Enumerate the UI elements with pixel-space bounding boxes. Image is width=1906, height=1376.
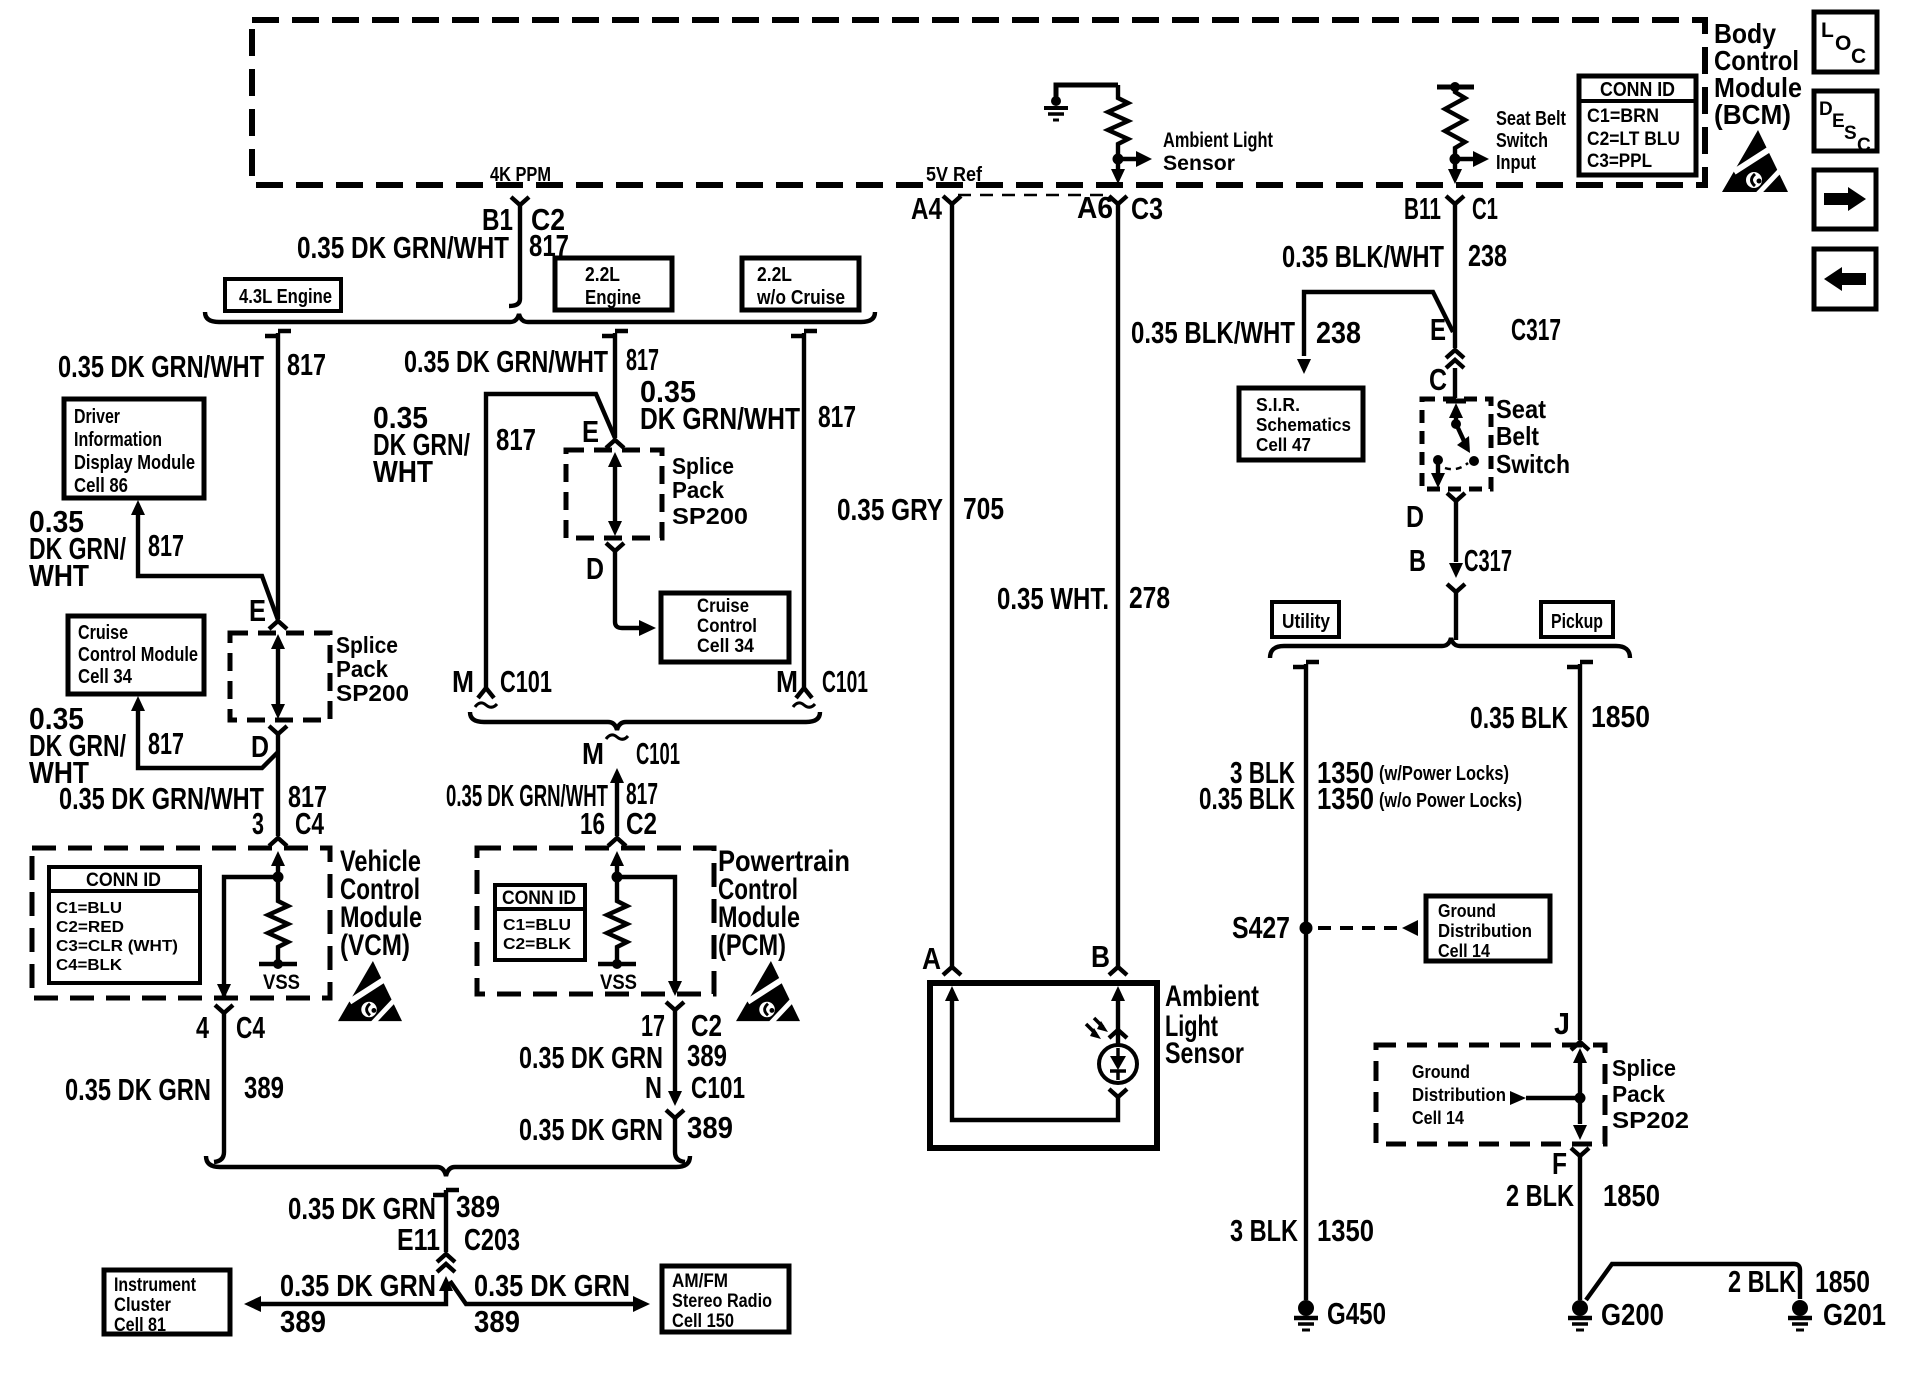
svg-text:D: D: [1819, 99, 1833, 120]
wire 278: [1116, 204, 1120, 967]
svg-text:Splice: Splice: [1612, 1055, 1676, 1081]
svg-text:389: 389: [456, 1189, 500, 1224]
ground (inside BCM, ambient light sensor pull-up): [1044, 85, 1118, 120]
svg-text:Cell 150: Cell 150: [672, 1311, 734, 1332]
svg-text:16: 16: [580, 806, 605, 841]
connector 4 C4: [215, 1005, 233, 1013]
ground G200: [1568, 1300, 1592, 1330]
svg-text:Sensor: Sensor: [1165, 1037, 1244, 1070]
brace (engine variants): [205, 312, 875, 322]
connector B11 C1: [1446, 196, 1464, 204]
svg-text:Distribution: Distribution: [1412, 1085, 1506, 1105]
seat belt switch dashed box: [1422, 399, 1491, 489]
svg-text:C101: C101: [691, 1070, 745, 1105]
svg-text:L: L: [1821, 19, 1834, 42]
svg-text:O: O: [1835, 32, 1851, 55]
wire D down to VCM: [276, 734, 280, 836]
svg-text:Pickup: Pickup: [1551, 611, 1603, 633]
left arrow nav box: [1814, 249, 1876, 309]
svg-text:0.35 DK GRN/WHT: 0.35 DK GRN/WHT: [404, 344, 608, 379]
svg-text:C2=RED: C2=RED: [56, 919, 124, 936]
svg-text:2 BLK: 2 BLK: [1506, 1178, 1574, 1213]
junction + arrow to label: [1113, 154, 1124, 165]
svg-text:B: B: [1091, 939, 1110, 974]
svg-text:C4: C4: [295, 806, 325, 841]
svg-text:Distribution: Distribution: [1438, 921, 1532, 941]
connector under brace (4.3L leg): [265, 331, 291, 336]
svg-text:C: C: [1429, 362, 1447, 397]
svg-text:A6: A6: [1077, 190, 1113, 225]
svg-text:C3=CLR (WHT): C3=CLR (WHT): [56, 938, 178, 955]
svg-text:1850: 1850: [1591, 699, 1650, 734]
svg-text:(PCM): (PCM): [718, 929, 786, 962]
svg-text:M: M: [452, 664, 474, 699]
svg-text:C317: C317: [1464, 543, 1512, 578]
wire 389 down to merge brace: [675, 1118, 685, 1162]
svg-text:3: 3: [252, 806, 264, 841]
label Vehicle Control Module (VCM): [340, 845, 422, 962]
svg-text:Cell 34: Cell 34: [697, 636, 754, 657]
svg-text:N: N: [645, 1070, 662, 1105]
svg-text:817: 817: [496, 422, 536, 457]
svg-text:0.35 BLK/WHT: 0.35 BLK/WHT: [1282, 239, 1444, 274]
svg-text:0.35 DK GRN/WHT: 0.35 DK GRN/WHT: [297, 230, 509, 265]
svg-text:Seat: Seat: [1496, 394, 1546, 424]
light arrows: [1086, 1018, 1103, 1034]
svg-text:D: D: [251, 729, 269, 764]
wire 817 down to E: [276, 333, 280, 619]
svg-text:(VCM): (VCM): [340, 929, 410, 962]
resistor VSS (VCM): [268, 877, 288, 962]
junction: [273, 872, 284, 883]
svg-text:389: 389: [474, 1304, 520, 1339]
svg-text:C: C: [1857, 135, 1871, 156]
svg-text:M: M: [582, 736, 604, 771]
svg-text:Seat Belt: Seat Belt: [1496, 108, 1566, 130]
svg-text:Cell 34: Cell 34: [78, 666, 133, 688]
right branch wire (2.2L w/o Cruise): [791, 331, 817, 336]
svg-text:4: 4: [196, 1010, 210, 1045]
svg-text:Ambient: Ambient: [1165, 980, 1259, 1013]
svg-text:Switch: Switch: [1496, 130, 1548, 152]
wire up-arrow to 16 C2: [610, 768, 624, 783]
svg-text:Control: Control: [697, 616, 757, 637]
photodiode (LED): [1109, 1030, 1127, 1038]
ESD symbol (PCM): [736, 961, 800, 1025]
svg-text:S: S: [1844, 123, 1857, 144]
svg-text:Pack: Pack: [672, 477, 724, 503]
svg-text:D: D: [586, 551, 604, 586]
svg-text:E: E: [582, 414, 599, 449]
wire with up arrow, splitting left and right: [439, 1276, 453, 1291]
svg-text:817: 817: [148, 726, 184, 761]
svg-text:C2=BLK: C2=BLK: [503, 936, 571, 953]
ground G450: [1294, 1300, 1318, 1330]
svg-text:WHT: WHT: [29, 558, 89, 593]
Ambient Light Sensor box: [930, 983, 1157, 1148]
svg-text:Display Module: Display Module: [74, 452, 195, 474]
wire G201 branch: [1586, 1264, 1800, 1300]
svg-text:C101: C101: [500, 664, 552, 699]
svg-text:17: 17: [641, 1008, 665, 1043]
label Body Control Module (BCM): [1714, 18, 1802, 130]
wire down to box edge with arrow: [1116, 159, 1120, 170]
resistor (ambient light sensor input, inside BCM): [1108, 85, 1128, 159]
svg-text:Switch: Switch: [1496, 449, 1570, 479]
BCM dashed box: [252, 20, 1705, 185]
label Splice Pack SP202: [1612, 1055, 1689, 1133]
wire 1850 down: [1578, 664, 1582, 1040]
svg-text:C1=BLU: C1=BLU: [503, 917, 571, 934]
2.2L w/o Cruise box: [742, 258, 859, 310]
svg-text:4.3L Engine: 4.3L Engine: [239, 286, 332, 308]
label Ambient Light Sensor: [1163, 129, 1273, 175]
svg-text:Cell 14: Cell 14: [1412, 1108, 1464, 1128]
splice pack SP200 dashed box (middle): [566, 450, 662, 538]
switch: fixed contact bar: [1446, 399, 1466, 404]
svg-text:0.35 DK GRN: 0.35 DK GRN: [65, 1072, 211, 1107]
CONN ID table (VCM): [49, 867, 200, 983]
svg-text:0.35 DK GRN/WHT: 0.35 DK GRN/WHT: [58, 349, 264, 384]
svg-text:Cruise: Cruise: [78, 622, 128, 644]
S.I.R. Schematics box: [1239, 388, 1363, 460]
svg-text:C2=LT BLU: C2=LT BLU: [1587, 129, 1680, 150]
wire down to box edge with arrow: [1453, 159, 1457, 170]
wire tap to Driver Information module (arrow up): [138, 512, 278, 620]
svg-text:C317: C317: [1511, 312, 1561, 347]
svg-text:Ambient Light: Ambient Light: [1163, 129, 1273, 152]
internal wire to output pin 17: [617, 877, 675, 992]
svg-text:0.35 DK GRN: 0.35 DK GRN: [280, 1268, 436, 1303]
svg-text:CONN ID: CONN ID: [502, 888, 576, 909]
Ground Distribution Cell 14 box (ref): [1426, 896, 1550, 961]
svg-text:Schematics: Schematics: [1256, 415, 1351, 435]
Pickup box: [1541, 602, 1613, 637]
svg-text:Sensor: Sensor: [1163, 152, 1235, 175]
svg-text:389: 389: [244, 1070, 284, 1105]
svg-text:389: 389: [687, 1110, 733, 1145]
svg-text:817: 817: [148, 528, 184, 563]
svg-text:0.35 GRY: 0.35 GRY: [837, 492, 943, 527]
svg-text:S427: S427: [1232, 910, 1290, 945]
svg-text:C4: C4: [236, 1010, 266, 1045]
svg-text:238: 238: [1468, 238, 1507, 273]
svg-text:Cell 47: Cell 47: [1256, 435, 1311, 455]
svg-text:Cruise: Cruise: [697, 596, 749, 617]
svg-text:C4=BLK: C4=BLK: [56, 957, 122, 974]
svg-text:C203: C203: [464, 1222, 520, 1257]
svg-text:Splice: Splice: [336, 632, 398, 658]
svg-text:WHT: WHT: [373, 454, 433, 489]
svg-text:1850: 1850: [1815, 1264, 1870, 1299]
svg-text:2.2L: 2.2L: [585, 264, 620, 286]
wire down to E: [613, 333, 617, 438]
svg-text:F: F: [1552, 1146, 1567, 1181]
svg-text:817: 817: [287, 347, 326, 382]
svg-text:Ground: Ground: [1438, 901, 1496, 921]
svg-text:Pack: Pack: [336, 656, 388, 682]
brace (Utility/Pickup): [1270, 638, 1630, 658]
wire 238 down: [1453, 204, 1457, 348]
wire 389 to N C101: [673, 1010, 677, 1092]
svg-text:G200: G200: [1601, 1297, 1664, 1332]
svg-text:CONN ID: CONN ID: [86, 870, 161, 891]
svg-text:A: A: [922, 941, 941, 976]
svg-text:0.35 WHT.: 0.35 WHT.: [997, 581, 1109, 616]
svg-text:C101: C101: [822, 664, 868, 699]
svg-text:B: B: [1409, 543, 1426, 578]
svg-text:C3=PPL: C3=PPL: [1587, 151, 1652, 172]
label Splice Pack SP200: [672, 453, 748, 529]
Driver Information Display Module box: [64, 399, 204, 498]
svg-text:(w/o Power Locks): (w/o Power Locks): [1379, 790, 1522, 812]
ESD symbol (BCM): [1722, 130, 1788, 196]
connector (under brace, merged 389 leg): [433, 1190, 459, 1195]
svg-text:B11: B11: [1404, 191, 1441, 226]
svg-text:817: 817: [818, 399, 856, 434]
internal loop wire: [945, 986, 959, 1001]
connector M C101 (left): [475, 688, 497, 707]
4.3L Engine box: [225, 279, 341, 311]
svg-text:Information: Information: [74, 429, 162, 451]
svg-text:Utility: Utility: [1282, 611, 1331, 633]
LOC nav box: [1814, 12, 1877, 72]
connector B1/C2 (BCM 4K PPM output): [511, 197, 529, 205]
svg-text:(BCM): (BCM): [1714, 99, 1791, 130]
entry arrow: [271, 851, 285, 866]
svg-text:0.35 DK GRN: 0.35 DK GRN: [288, 1191, 436, 1226]
svg-text:0.35 BLK: 0.35 BLK: [1199, 781, 1295, 816]
svg-text:VSS: VSS: [263, 971, 300, 994]
svg-text:Splice: Splice: [672, 453, 734, 479]
connector D: [606, 543, 624, 551]
right arrow nav box: [1814, 170, 1876, 229]
label Ambient Light Sensor: [1165, 980, 1259, 1070]
ESD symbol (VCM): [338, 961, 402, 1025]
Utility box: [1272, 602, 1339, 637]
svg-text:AM/FM: AM/FM: [672, 1271, 728, 1292]
svg-text:Cluster: Cluster: [114, 1295, 172, 1316]
2.2L Engine box: [555, 258, 672, 310]
branch wire to S.I.R.: [1304, 292, 1453, 356]
connector F: [1571, 1148, 1589, 1156]
svg-text:G201: G201: [1823, 1297, 1886, 1332]
svg-text:C2: C2: [626, 806, 657, 841]
svg-text:C1=BRN: C1=BRN: [1587, 106, 1659, 127]
splice pack SP200 dashed box (left): [230, 633, 330, 720]
CONN ID table (PCM): [495, 885, 585, 960]
Cruise Control Cell 34 box: [661, 593, 789, 662]
svg-text:Pack: Pack: [1612, 1081, 1665, 1107]
label 0.35 DK GRN/WHT 817: [640, 374, 856, 436]
wire 1350 down: [1304, 664, 1308, 1300]
svg-text:0.35 DK GRN: 0.35 DK GRN: [519, 1112, 663, 1147]
internal arrow from Ground Distribution ref: [1412, 1062, 1506, 1128]
junction: [612, 872, 623, 883]
svg-text:S.I.R.: S.I.R.: [1256, 395, 1300, 415]
svg-text:SP200: SP200: [672, 503, 748, 529]
svg-text:Cell 81: Cell 81: [114, 1315, 166, 1336]
connector under brace (Pickup leg): [1567, 662, 1593, 667]
connector D: [269, 726, 287, 734]
label 0.35 DK GRN/ WHT 817: [29, 701, 184, 790]
svg-text:705: 705: [963, 491, 1004, 526]
connector A4: [943, 196, 961, 204]
svg-text:Ground: Ground: [1412, 1062, 1470, 1082]
svg-text:CONN ID: CONN ID: [1600, 79, 1675, 101]
wire 389 down to E11: [444, 1190, 448, 1252]
svg-text:0.35 DK GRN/WHT: 0.35 DK GRN/WHT: [59, 781, 264, 816]
svg-text:Belt: Belt: [1496, 421, 1539, 451]
svg-text:Control Module: Control Module: [78, 644, 198, 666]
switch: arm with arrowhead: [1458, 428, 1464, 441]
splice pack SP202 dashed box: [1376, 1045, 1605, 1144]
svg-text:1350: 1350: [1317, 1213, 1374, 1248]
svg-text:5V Ref: 5V Ref: [926, 164, 982, 186]
svg-text:E: E: [1430, 312, 1446, 347]
svg-text:C101: C101: [636, 736, 680, 771]
svg-text:SP202: SP202: [1612, 1107, 1689, 1133]
svg-text:E: E: [1832, 111, 1845, 132]
entry arrow: [610, 851, 624, 866]
switch: upper arrow: [1454, 410, 1458, 424]
svg-text:C: C: [1851, 45, 1866, 68]
resistor VSS (PCM): [607, 877, 627, 962]
brace (C101 merge): [470, 712, 820, 730]
connector M C101 (right): [793, 688, 815, 707]
Vehicle Control Module dashed box: [32, 848, 330, 998]
switch: travel arc: [1445, 463, 1468, 469]
Instrument Cluster box: [104, 1270, 230, 1336]
label Seat Belt Switch Input: [1496, 108, 1566, 174]
svg-text:0.35 DK GRN: 0.35 DK GRN: [519, 1040, 663, 1075]
wire 389 down to merge brace: [214, 1013, 224, 1162]
svg-text:D: D: [1406, 499, 1424, 534]
svg-text:Input: Input: [1496, 152, 1536, 174]
AM/FM Stereo Radio box: [662, 1266, 789, 1332]
svg-text:2.2L: 2.2L: [757, 264, 792, 286]
svg-text:(w/Power Locks): (w/Power Locks): [1379, 763, 1509, 785]
connector A6 C3: [1109, 196, 1127, 204]
wire 1850 to G200: [1578, 1156, 1582, 1300]
svg-text:G450: G450: [1327, 1296, 1386, 1331]
svg-text:2 BLK: 2 BLK: [1728, 1264, 1796, 1299]
svg-text:0.35 DK GRN: 0.35 DK GRN: [474, 1268, 630, 1303]
thin dashed link 5V Ref: [958, 194, 1106, 197]
connector under brace (2.2L leg): [602, 331, 628, 336]
svg-text:389: 389: [687, 1038, 727, 1073]
svg-text:DK GRN/WHT: DK GRN/WHT: [640, 401, 800, 436]
connector under brace (Utility leg): [1293, 662, 1319, 667]
svg-text:C1: C1: [1472, 191, 1498, 226]
svg-text:VSS: VSS: [600, 971, 637, 994]
svg-text:SP200: SP200: [336, 680, 409, 706]
wire D to Cruise Control arrow: [615, 551, 640, 628]
svg-text:1350: 1350: [1317, 781, 1374, 816]
svg-text:C3: C3: [1131, 191, 1163, 226]
label 0.35 DK GRN/ WHT 817: [29, 504, 184, 593]
switch: lower contact with arrow: [1433, 455, 1443, 465]
label Splice Pack SP200: [336, 632, 409, 706]
svg-text:3 BLK: 3 BLK: [1230, 1213, 1298, 1248]
svg-text:J: J: [1554, 1006, 1570, 1041]
brace (389 merge): [206, 1156, 690, 1176]
svg-text:278: 278: [1129, 580, 1170, 615]
CONN ID table (BCM): [1579, 76, 1696, 175]
Powertrain Control Module dashed box: [477, 848, 714, 994]
svg-text:M: M: [776, 664, 798, 699]
svg-text:0.35 BLK/WHT: 0.35 BLK/WHT: [1131, 315, 1295, 350]
label Seat Belt Switch: [1496, 394, 1570, 479]
tilde below brace: [606, 735, 628, 739]
tap wire to M C101 (left): [486, 394, 615, 688]
svg-text:Cell 86: Cell 86: [74, 475, 128, 497]
svg-text:E: E: [249, 593, 266, 628]
label Powertrain Control Module (PCM): [718, 845, 850, 962]
svg-text:Stereo Radio: Stereo Radio: [672, 1291, 772, 1312]
svg-text:Cell 14: Cell 14: [1438, 941, 1490, 961]
svg-text:A4: A4: [911, 191, 943, 226]
svg-text:C1=BLU: C1=BLU: [56, 900, 122, 917]
svg-text:E11: E11: [397, 1222, 440, 1257]
ground G201: [1788, 1300, 1812, 1330]
Cruise Control Module box: [68, 616, 204, 694]
internal wire to output pin 4: [224, 877, 278, 996]
DESC nav box: [1814, 91, 1877, 156]
label 0.35 DK GRN/ WHT 817: [373, 400, 536, 489]
resistor (seat belt switch input, inside BCM): [1437, 82, 1474, 159]
svg-text:389: 389: [280, 1304, 326, 1339]
svg-text:0.35 BLK: 0.35 BLK: [1470, 700, 1568, 735]
svg-text:Driver: Driver: [74, 406, 120, 428]
junction + arrow to label: [1450, 154, 1461, 165]
wire tap to Cruise Control module (arrow up): [138, 708, 278, 768]
svg-text:817: 817: [626, 342, 659, 377]
svg-text:4K PPM: 4K PPM: [490, 164, 551, 186]
wire 817 from B1: [509, 205, 520, 306]
svg-text:Instrument: Instrument: [114, 1275, 197, 1296]
connector D: [1447, 493, 1465, 501]
wire 705: [950, 204, 954, 967]
svg-text:w/o Cruise: w/o Cruise: [756, 287, 845, 309]
svg-text:Engine: Engine: [585, 287, 641, 309]
svg-text:238: 238: [1316, 315, 1361, 350]
wire to B C317: [1454, 501, 1458, 562]
connector 17 C2: [666, 1002, 684, 1010]
svg-text:1850: 1850: [1603, 1178, 1660, 1213]
